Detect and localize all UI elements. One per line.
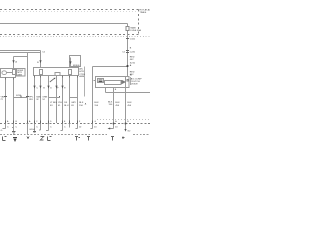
svg-text:C100: C100 (130, 38, 136, 40)
svg-text:FUSE 30A: FUSE 30A (131, 29, 142, 32)
svg-text:A/C COMP: A/C COMP (131, 77, 142, 80)
svg-text:MODE: MODE (73, 65, 80, 67)
svg-text:C220: C220 (130, 51, 136, 53)
svg-text:DIODE: DIODE (131, 84, 138, 86)
svg-text:TAN: TAN (36, 95, 41, 98)
svg-text:S234: S234 (16, 95, 22, 97)
svg-text:HOT AT ALL: HOT AT ALL (140, 8, 151, 11)
svg-text:ASM: ASM (17, 73, 22, 76)
svg-text:G104: G104 (29, 129, 35, 131)
svg-text:MAXI: MAXI (131, 27, 137, 30)
svg-text:G: G (1, 130, 3, 132)
svg-text:A/C: A/C (79, 68, 83, 71)
svg-text:ASM: ASM (79, 75, 84, 78)
svg-text:BLU: BLU (64, 105, 69, 107)
svg-text:TIMES: TIMES (140, 12, 147, 14)
